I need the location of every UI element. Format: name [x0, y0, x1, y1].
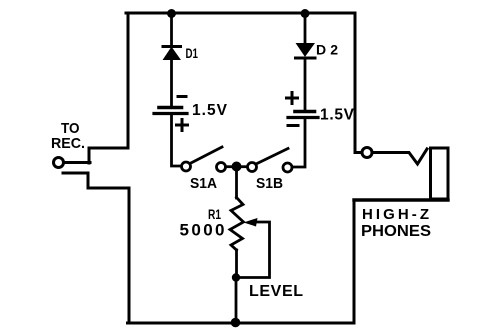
svg-text:S1A: S1A — [190, 176, 217, 192]
battery B1 minus sign — [178, 95, 186, 98]
svg-text:PHONES: PHONES — [361, 223, 431, 240]
diode D1 (cathode bar) — [163, 45, 181, 48]
wire: S1B right contact to battery B2 — [292, 118, 305, 167]
battery B2 top plate (short) — [295, 110, 315, 114]
battery B1 negative plate (short) — [159, 106, 182, 110]
wire: battery B1 to switch S1A — [172, 114, 182, 166]
wire: right rail lower — [353, 200, 356, 323]
svg-text:REC.: REC. — [51, 135, 85, 152]
diode D2 (triangle, pointing down) — [297, 44, 315, 57]
wire: right rail upper (top rail down to jack) — [355, 13, 362, 153]
potentiometer R1 (zigzag body) — [230, 198, 244, 251]
wire: jack sleeve to right rail — [354, 198, 448, 201]
wire: left rail lower (plug sleeve lead down to bottom rail) — [63, 173, 129, 323]
diode D2 (cathode bar) — [296, 57, 316, 60]
wire: pot bottom to junction — [235, 250, 238, 278]
svg-text:S1B: S1B — [256, 176, 283, 192]
wire: junction down to bottom rail — [235, 278, 238, 324]
node: junction D2 branch / top rail — [301, 9, 310, 18]
battery B2 plus sign — [287, 97, 298, 100]
battery B1 plus sign — [177, 124, 188, 127]
potentiometer R1 wiper arrowhead — [244, 218, 258, 227]
node: center junction (switch common / pot top) — [232, 162, 242, 172]
wire: plug tip lead — [64, 161, 90, 164]
wire: D1 anode to top rail — [170, 13, 173, 46]
svg-text:D1: D1 — [186, 45, 199, 61]
wire: S1B left contact to center node — [240, 165, 248, 168]
wire: D2 to battery B2 — [304, 58, 307, 109]
battery B2 bottom plate (long) — [288, 116, 318, 119]
jack J1 body (HIGH-Z PHONES) — [431, 148, 449, 199]
switch S1A right contact — [217, 163, 226, 172]
battery B2 minus sign — [288, 124, 298, 127]
wire: center node down to potentiometer R1 — [235, 167, 238, 199]
wire: bottom rail — [128, 322, 354, 325]
switch S1A lever — [190, 147, 222, 164]
node: junction pot bottom / wiper return — [232, 273, 240, 281]
svg-text:HIGH-Z: HIGH-Z — [362, 206, 429, 223]
switch S1B right contact — [283, 163, 292, 172]
svg-text:5000: 5000 — [180, 221, 225, 240]
svg-text:1.5V: 1.5V — [192, 102, 228, 119]
wire: S1A right contact to center node — [226, 165, 234, 168]
wire: D2 anode to top rail — [304, 13, 307, 43]
switch S1B left contact — [248, 163, 257, 172]
battery B1 positive plate (long) — [154, 112, 187, 115]
switch S1A left contact — [182, 162, 191, 171]
node: junction pot branch / bottom rail — [231, 318, 241, 328]
wire: left rail upper (top rail down to plug step) — [89, 13, 128, 163]
terminal: plug P1 tip (TO REC.) — [54, 158, 64, 168]
switch S1B lever — [256, 149, 288, 165]
svg-text:D2: D2 — [316, 42, 338, 58]
svg-text:LEVEL: LEVEL — [249, 283, 303, 300]
wire: D1 to battery B1 — [170, 59, 173, 106]
wire: wiper to lower pot terminal — [240, 222, 270, 278]
node: junction D1 branch / top rail — [167, 9, 176, 18]
diode D1 (triangle, pointing up) — [164, 48, 181, 60]
wire: jack tip spring contact — [373, 149, 428, 164]
terminal: jack J1 tip terminal circle — [362, 148, 372, 158]
svg-text:1.5V: 1.5V — [320, 107, 355, 124]
wire: top rail — [126, 12, 355, 15]
